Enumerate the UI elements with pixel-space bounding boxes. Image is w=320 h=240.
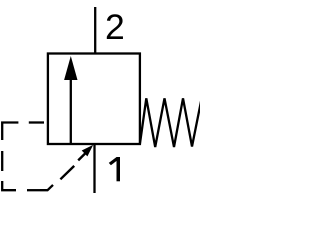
pilot line diagonal dash d	[60, 166, 74, 179]
pilot line upper dash a	[29, 121, 44, 123]
pilot line lower dash c	[27, 189, 40, 191]
pilot line top-left corner dash	[2, 123, 18, 141]
pilot line bottom-left corner dash	[2, 181, 16, 190]
pilot arrow head	[82, 145, 94, 157]
pilot arrow shaft solid end	[78, 153, 85, 160]
port 2 line (top)	[94, 7, 96, 55]
flow arrow shaft	[70, 79, 72, 144]
label 1 flag	[109, 157, 117, 165]
pilot line left dash b	[1, 151, 3, 171]
port 1 line (bottom)	[93, 144, 95, 194]
label 1 stem	[117, 157, 121, 181]
spring	[140, 98, 202, 147]
pilot line bottom-right corner dash (bends into diagonal)	[40, 185, 53, 190]
flow arrow head	[64, 56, 77, 80]
svg-text:2: 2	[105, 7, 125, 47]
valve body (square)	[48, 54, 140, 145]
